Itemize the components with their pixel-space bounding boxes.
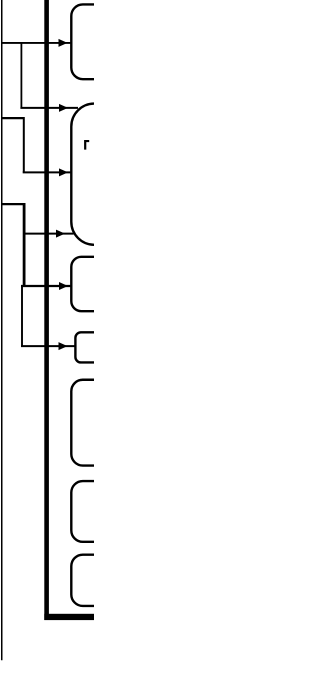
wire: left trunk vertical: [1, 0, 3, 660]
wire: arrow 4 horizontal: [24, 233, 73, 235]
box 1 (rounded, cut off at right): [71, 4, 141, 79]
box 6: [71, 481, 141, 542]
box 2 (tall rounded, cut off at right): [71, 104, 141, 245]
wire: arrow 3 horizontal: [23, 171, 72, 173]
wire: vertical B: [23, 117, 25, 172]
wire: arrow 2 horizontal: [20, 107, 78, 109]
arrowhead 2: [59, 104, 68, 112]
arrowhead 4: [56, 230, 65, 238]
arrowhead 6: [59, 342, 68, 350]
wire: arrow 5 horizontal: [21, 285, 72, 287]
arrowhead 1: [59, 39, 68, 47]
wire: vertical C: [21, 286, 23, 346]
arrowhead 3: [59, 168, 68, 176]
wire: branch 4 horizontal from trunk: [1, 203, 24, 205]
wire: vertical B2 (thick): [23, 203, 26, 286]
wire: vertical A (from arrow1 line down): [20, 43, 22, 108]
arrowhead 5: [59, 282, 68, 290]
wire: arrow 1 horizontal from trunk: [1, 42, 72, 44]
box 4 (small, inset): [75, 332, 141, 362]
frame: thick bottom border: [44, 614, 94, 620]
box 3: [71, 257, 141, 311]
wire: branch 3 horizontal from trunk: [1, 117, 24, 119]
wire: arrow 6 horizontal: [21, 345, 76, 347]
box 7: [71, 555, 141, 606]
frame: thick vertical bar (container left border): [44, 0, 49, 620]
box 5: [71, 380, 141, 466]
label Г inside box 2: [84, 140, 89, 150]
